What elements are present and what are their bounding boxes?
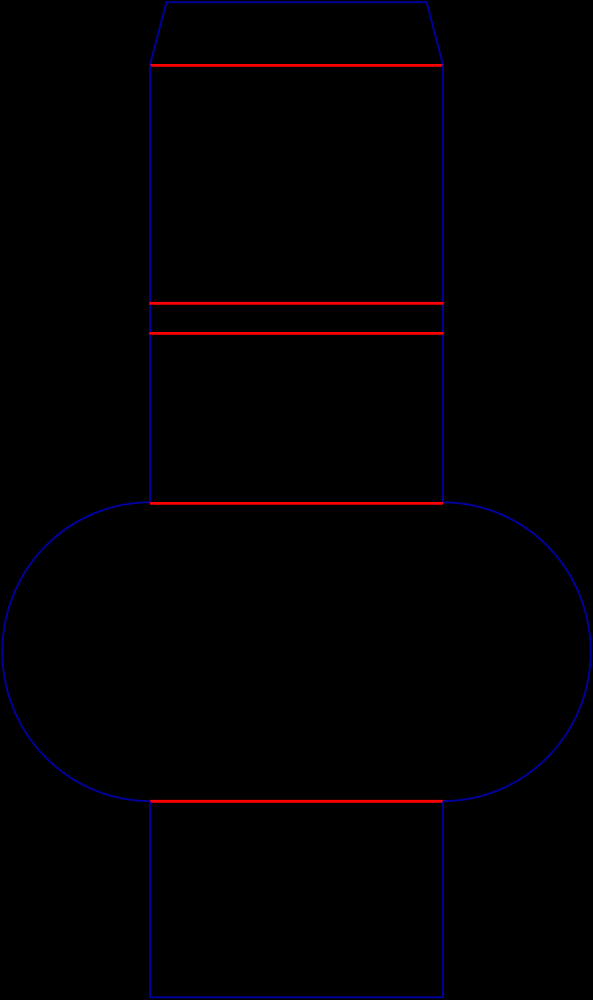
red fold line 4 (top of stadium) [150, 502, 443, 505]
stadium right arc [443, 502, 591, 801]
red fold line 2 [149, 302, 443, 305]
left side wall line (upper panel) [149, 65, 151, 503]
top flap trapezoid outline [150, 2, 443, 64]
stadium left arc [2, 502, 150, 801]
red fold line 3 [149, 332, 443, 335]
red fold line 5 (bottom of stadium) [150, 800, 443, 803]
red fold line 1 (under top flap) [149, 64, 443, 67]
left side wall line (bottom panel) [149, 801, 151, 997]
bottom edge line [149, 996, 444, 998]
right side wall line (upper panel) [442, 65, 444, 503]
right side wall line (bottom panel) [442, 801, 444, 997]
